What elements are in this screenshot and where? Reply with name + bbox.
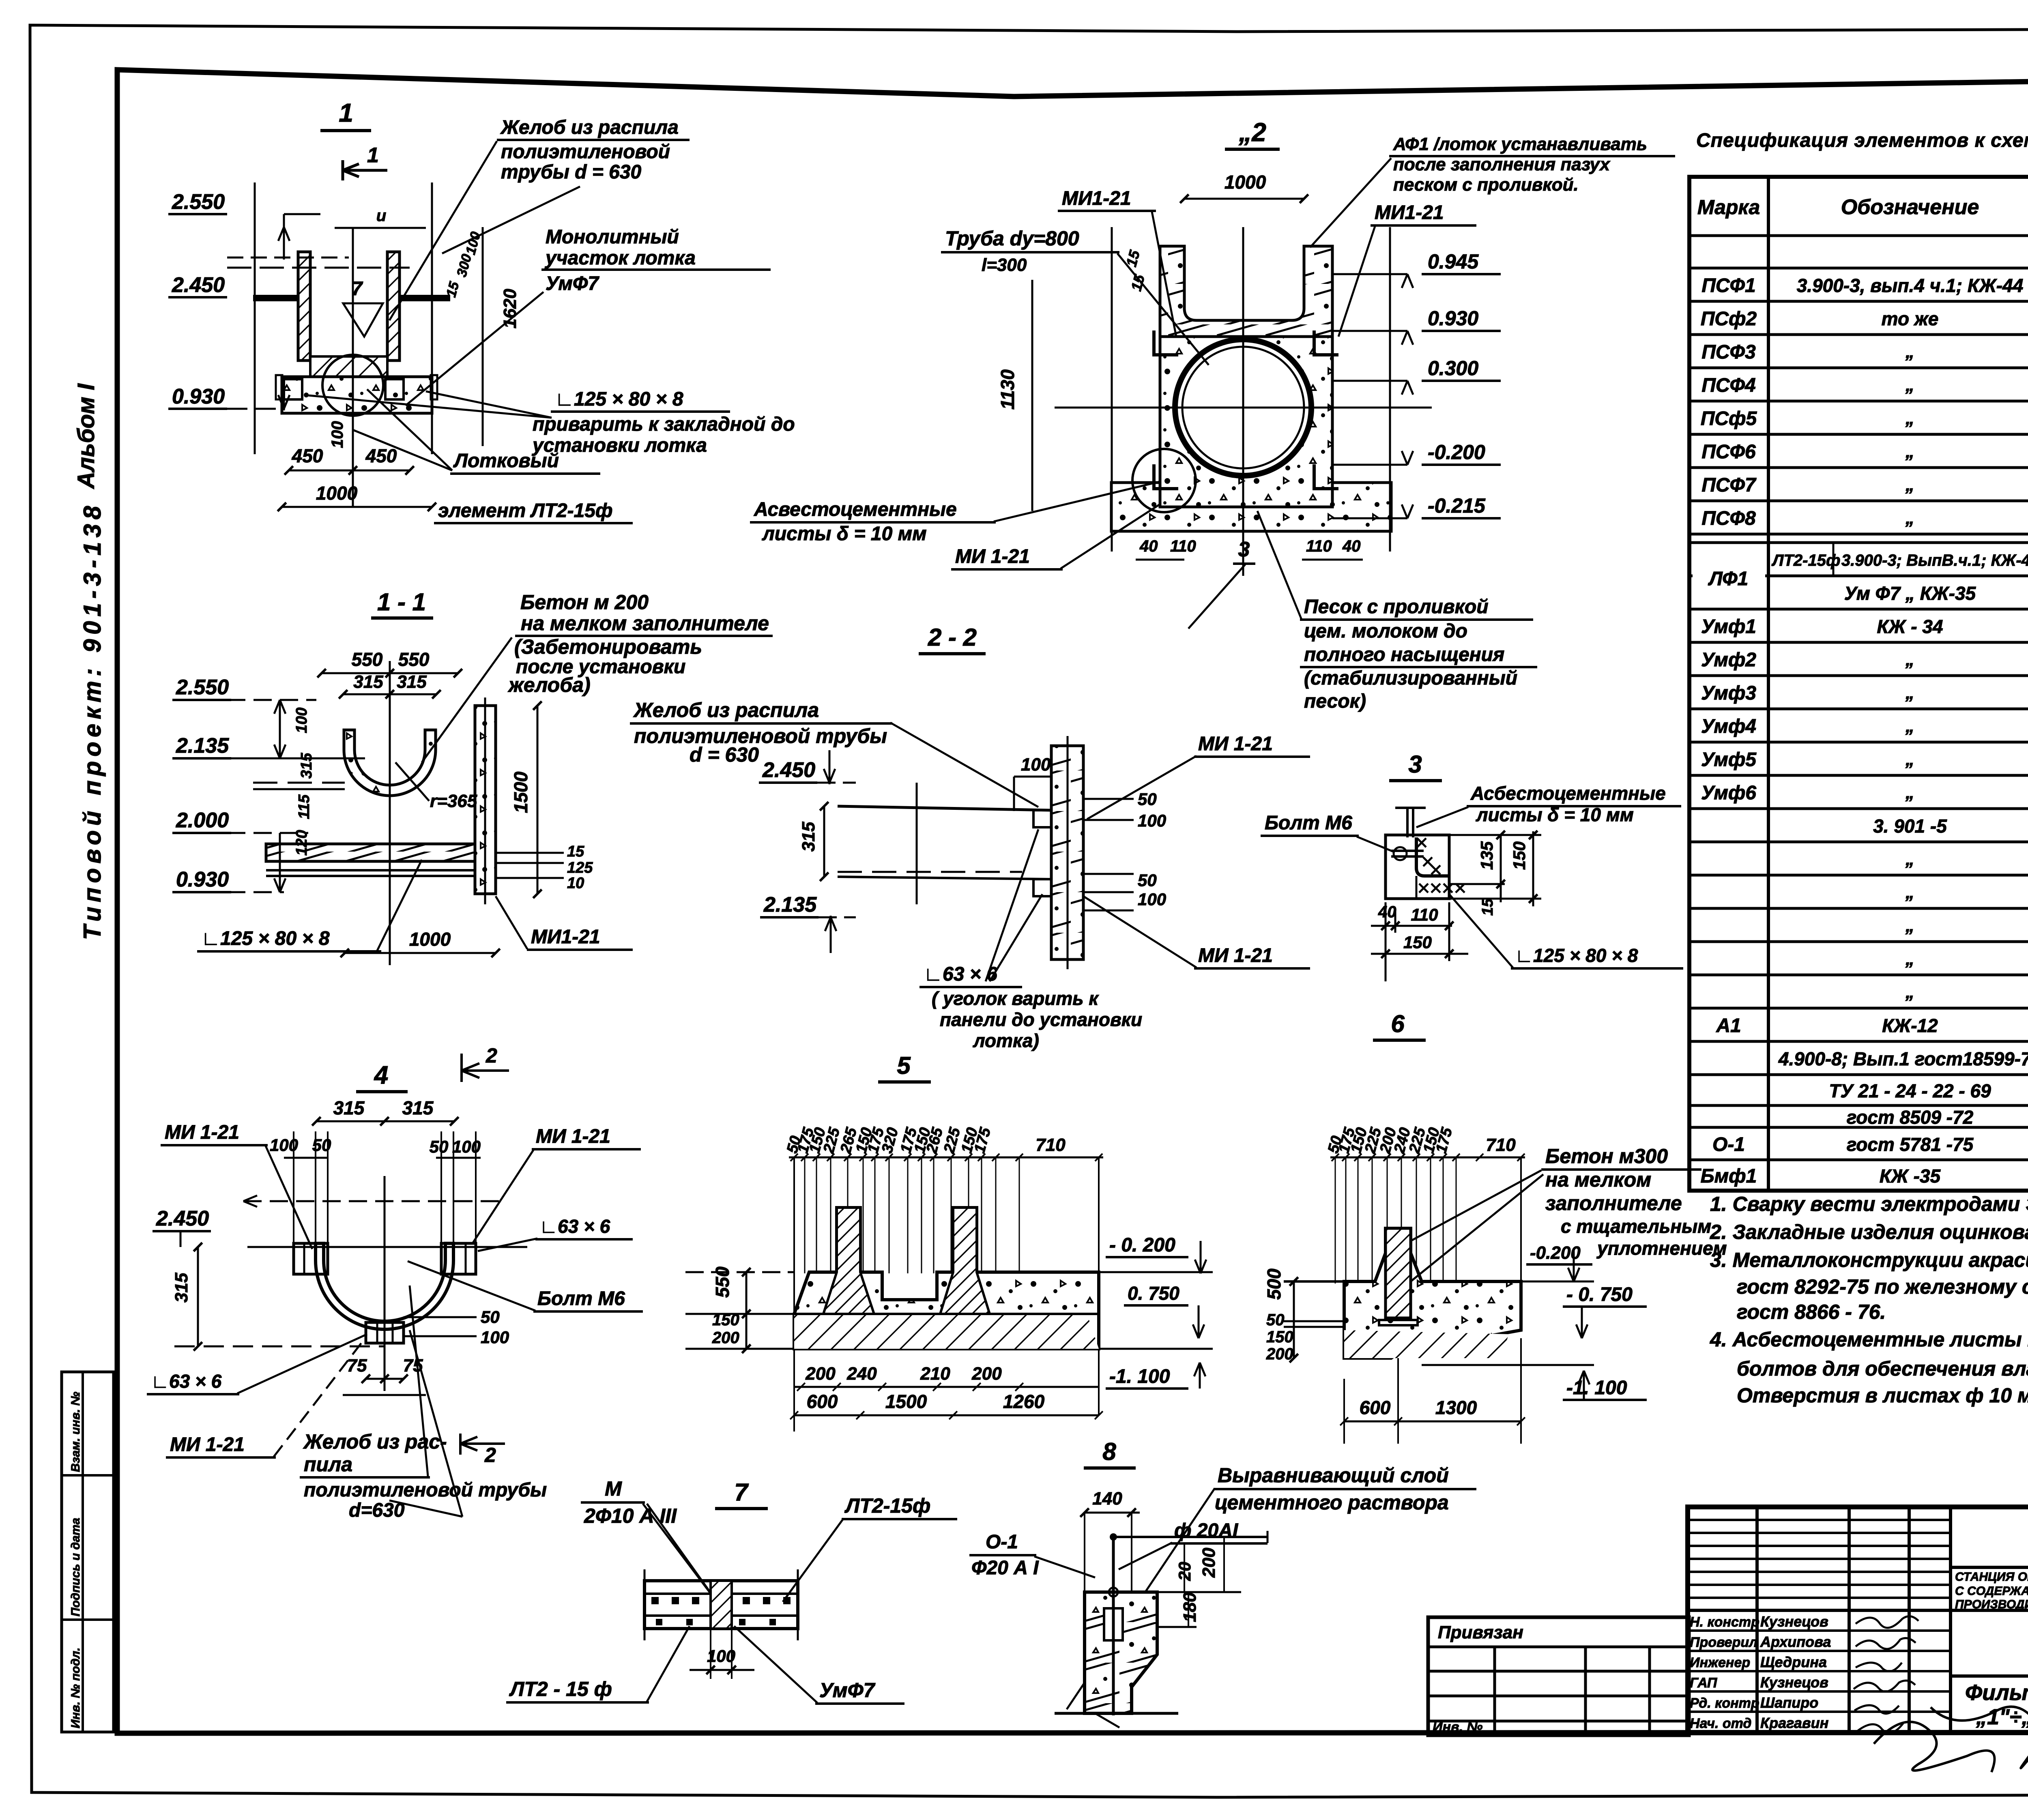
svg-text:с тщательным: с тщательным (1561, 1216, 1711, 1237)
view 4 K2 mark bottom (460, 1434, 505, 1455)
left margin small stamp table (62, 1372, 114, 1732)
view 7 bottom dim 100 (710, 1629, 711, 1679)
view 5 inner hatched base (794, 1314, 1099, 1349)
svg-text:Лотковый: Лотковый (453, 450, 559, 472)
svg-text:„: „ (1905, 342, 1914, 362)
svg-text:3. 901 -5: 3. 901 -5 (1873, 816, 1947, 837)
svg-text:заполнителе: заполнителе (1545, 1192, 1682, 1215)
view 1 bottom dims (289, 470, 410, 472)
svg-text:Умф4: Умф4 (1701, 716, 1756, 737)
svg-text:ТУ 21 - 24 - 22 - 69: ТУ 21 - 24 - 22 - 69 (1829, 1080, 1991, 1101)
view 6 top dim line (1330, 1157, 1525, 1159)
title block (1688, 1507, 2028, 1732)
svg-text:7: 7 (734, 1479, 749, 1506)
svg-text:Шапиро: Шапиро (1760, 1694, 1818, 1711)
view 1 base slab (282, 377, 432, 413)
svg-text:550: 550 (398, 649, 430, 670)
svg-text:2: 2 (486, 1044, 497, 1067)
svg-text:болтов для обеспечения влаж: болтов для обеспечения влажностных дефор… (1737, 1357, 2028, 1380)
signatures (1856, 1616, 1918, 1628)
svg-text:Привязан: Привязан (1438, 1623, 1523, 1642)
svg-text:3.900-3; ВыпВ.ч.1; КЖ-44: 3.900-3; ВыпВ.ч.1; КЖ-44 (1841, 552, 2028, 569)
svg-text:180: 180 (1180, 1592, 1200, 1622)
view 2 base slab (1111, 483, 1391, 531)
view 1 bottom hatch strip (310, 356, 387, 377)
svg-text:КЖ-12: КЖ-12 (1882, 1015, 1938, 1036)
svg-text:3: 3 (1238, 538, 1250, 561)
svg-text:- 0. 200: - 0. 200 (1109, 1234, 1175, 1256)
view 4 bottom dims 75 75 (366, 1378, 404, 1380)
svg-text:ПСФ7: ПСФ7 (1701, 474, 1757, 496)
view 2 main block (1160, 337, 1332, 507)
svg-text:„: „ (1905, 982, 1914, 1002)
svg-text:Крагавин: Крагавин (1760, 1715, 1829, 1731)
svg-text:листы δ = 10 мм: листы δ = 10 мм (762, 523, 927, 545)
svg-text:315: 315 (298, 753, 315, 779)
view 3 angle inside (1416, 837, 1449, 876)
view 4 top dims (316, 1120, 454, 1122)
svg-text:2. Закладные изделия оцинк: 2. Закладные изделия оцинковать. (1710, 1221, 2028, 1243)
view 7 joint hatch (711, 1581, 732, 1629)
svg-text:МИ 1-21: МИ 1-21 (165, 1122, 239, 1143)
svg-text:150: 150 (1510, 841, 1529, 870)
view 3 bolt (1391, 850, 1424, 852)
svg-text:3.900-3, вып.4 ч.1; КЖ-44: 3.900-3, вып.4 ч.1; КЖ-44 (1797, 275, 2024, 296)
svg-text:приварить к закладной до: приварить к закладной до (533, 414, 795, 435)
svg-text:315: 315 (333, 1097, 365, 1118)
svg-text:лотка): лотка) (973, 1030, 1039, 1051)
svg-text:2.550: 2.550 (172, 190, 225, 214)
svg-text:гост 5781 -75: гост 5781 -75 (1847, 1134, 1974, 1155)
svg-text:песок): песок) (1304, 691, 1366, 712)
view 3 sheet above (1406, 807, 1409, 837)
view 8 rebar horizontal (1113, 1536, 1267, 1538)
svg-text:„: „ (1905, 716, 1914, 736)
svg-text:450: 450 (292, 445, 323, 466)
view 2-2 brackets (1033, 810, 1051, 827)
svg-text:75: 75 (347, 1356, 367, 1376)
svg-text:2 - 2: 2 - 2 (928, 624, 977, 651)
privyazan table (1428, 1617, 1689, 1735)
view 6 stem (1386, 1228, 1411, 1318)
svg-text:„: „ (1905, 442, 1914, 461)
svg-text:125: 125 (567, 859, 593, 876)
svg-text:1300: 1300 (1435, 1397, 1477, 1418)
svg-text:„: „ (1905, 849, 1914, 869)
svg-text:15: 15 (567, 843, 584, 860)
view 6 vertical dim lines (1335, 1157, 1336, 1283)
svg-text:Инв. № подл.: Инв. № подл. (69, 1648, 82, 1728)
svg-text:Проверил: Проверил (1690, 1635, 1757, 1650)
svg-text:гост 8509 -72: гост 8509 -72 (1847, 1107, 1974, 1128)
svg-text:Инв. №: Инв. № (1433, 1719, 1482, 1735)
svg-text:110: 110 (1170, 537, 1196, 555)
svg-text:Монолитный: Монолитный (546, 226, 679, 248)
view 2 pipe circle (1175, 339, 1311, 476)
svg-text:40: 40 (1378, 903, 1396, 921)
svg-text:0.930: 0.930 (176, 868, 229, 891)
svg-text:то же: то же (1882, 308, 1939, 329)
svg-text:Асбестоцементные: Асбестоцементные (1470, 783, 1666, 804)
view 4 center lines (384, 1176, 386, 1391)
svg-text:8: 8 (1102, 1438, 1116, 1465)
svg-text:Умф5: Умф5 (1701, 749, 1757, 770)
svg-text:5: 5 (897, 1052, 911, 1079)
svg-text:110: 110 (1306, 537, 1332, 555)
svg-text:1000: 1000 (316, 483, 358, 504)
svg-text:Ф20 А I: Ф20 А I (971, 1557, 1039, 1579)
svg-text:панели до установки: панели до установки (940, 1009, 1142, 1030)
svg-text:„: „ (1905, 408, 1914, 428)
svg-text:„: „ (1905, 650, 1914, 670)
svg-text:ф 20АI: ф 20АI (1174, 1520, 1239, 1541)
svg-text:( уголок варить к: ( уголок варить к (932, 988, 1099, 1009)
svg-text:3: 3 (1408, 751, 1422, 778)
svg-text:4. Асбестоцементные листы: 4. Асбестоцементные листы крепить без пе… (1710, 1328, 2028, 1351)
svg-text:Щедрина: Щедрина (1760, 1654, 1827, 1670)
svg-text:„: „ (1905, 683, 1914, 703)
svg-text:450: 450 (365, 445, 397, 466)
svg-text:d = 630: d = 630 (690, 743, 759, 766)
svg-text:Рд. контр: Рд. контр (1690, 1696, 1759, 1711)
svg-text:Болт М6: Болт М6 (537, 1288, 625, 1309)
svg-text:100: 100 (1138, 811, 1166, 830)
svg-text:315: 315 (353, 672, 383, 692)
svg-text:4.900-8; Вып.1 гост18599-73: 4.900-8; Вып.1 гост18599-73 (1778, 1048, 2028, 1069)
svg-text:„: „ (1905, 375, 1914, 395)
svg-text:ЛТ2 - 15 ф: ЛТ2 - 15 ф (509, 1678, 612, 1700)
svg-text:315: 315 (172, 1273, 191, 1303)
svg-text:УмФ7: УмФ7 (546, 273, 599, 294)
view 6 base hatch band (1344, 1330, 1509, 1358)
svg-text:100: 100 (1021, 755, 1051, 775)
svg-text:-0.200: -0.200 (1428, 441, 1485, 464)
svg-text:315: 315 (402, 1097, 434, 1118)
svg-text:100: 100 (1138, 890, 1166, 909)
svg-text:315: 315 (397, 672, 427, 692)
svg-text:ЛФ1: ЛФ1 (1708, 568, 1749, 590)
svg-text:200: 200 (971, 1364, 1002, 1384)
svg-text:50: 50 (430, 1137, 449, 1156)
svg-text:550: 550 (712, 1266, 733, 1298)
svg-text:1500: 1500 (510, 771, 531, 813)
view 2-2 channel lines (838, 806, 1051, 810)
view 8 inner pocket (1104, 1608, 1123, 1640)
svg-text:АФ1 /лоток устанавливать: АФ1 /лоток устанавливать (1393, 134, 1647, 154)
svg-text:∟63 × 6: ∟63 × 6 (924, 964, 997, 985)
view 1-1 right wall (475, 706, 496, 894)
view 1 left wall (298, 252, 310, 361)
svg-text:Н. констр: Н. констр (1690, 1614, 1759, 1630)
svg-text:Песок с проливкой: Песок с проливкой (1304, 596, 1489, 618)
view 5 body (794, 1208, 1099, 1349)
view 7 end ticks (644, 1569, 646, 1640)
svg-text:1. Сварку вести электродами: 1. Сварку вести электродами Э42 (ГОСТ 94… (1710, 1193, 2028, 1215)
svg-text:l=300: l=300 (982, 255, 1027, 275)
svg-text:ЛТ2-15ф: ЛТ2-15ф (844, 1494, 930, 1517)
svg-text:50: 50 (1266, 1311, 1285, 1329)
svg-text:Умф2: Умф2 (1701, 649, 1756, 671)
svg-text:2Ф10 А III: 2Ф10 А III (584, 1505, 677, 1527)
svg-text:140: 140 (1092, 1489, 1122, 1509)
view 3 square (1386, 835, 1449, 899)
svg-text:гост 8292-75 по железному: гост 8292-75 по железному сурику на олиф… (1737, 1275, 2028, 1298)
view 1 anchor angles (284, 379, 302, 399)
svg-text:∟125 × 80 × 8: ∟125 × 80 × 8 (1515, 945, 1638, 966)
svg-text:(Забетонировать: (Забетонировать (514, 635, 702, 658)
svg-text:Бетон м300: Бетон м300 (1545, 1145, 1668, 1168)
svg-text:10: 10 (567, 875, 584, 892)
spec table grid (1689, 177, 2028, 1191)
svg-text:МИ 1-21: МИ 1-21 (955, 546, 1030, 567)
view 8 ground line (1055, 1712, 1178, 1715)
svg-text:200: 200 (712, 1329, 739, 1347)
svg-text:полиэтиленовой трубы: полиэтиленовой трубы (304, 1479, 547, 1501)
view 6 body (1344, 1228, 1521, 1358)
svg-text:М: М (605, 1477, 622, 1500)
svg-text:0.300: 0.300 (1428, 357, 1478, 380)
svg-text:240: 240 (846, 1364, 877, 1384)
svg-text:листы δ = 10 мм: листы δ = 10 мм (1476, 804, 1634, 825)
view 7 rebar dots (651, 1597, 659, 1604)
view 1 section mark K1 (343, 160, 387, 180)
svg-text:Марка: Марка (1697, 196, 1760, 219)
svg-text:участок лотка: участок лотка (545, 247, 696, 269)
svg-text:210: 210 (920, 1364, 950, 1384)
view 4 bottom bracket (366, 1322, 404, 1343)
svg-text:315: 315 (799, 822, 819, 852)
view 1 dim verticals (254, 182, 256, 454)
svg-text:Болт М6: Болт М6 (1265, 812, 1352, 834)
svg-text:6: 6 (1391, 1010, 1405, 1037)
view 3 weld xxx (1417, 838, 1426, 847)
svg-text:40: 40 (1342, 537, 1361, 555)
svg-text:МИ 1-21: МИ 1-21 (1198, 945, 1273, 966)
view 4 K2 mark top (462, 1054, 509, 1082)
svg-text:Умф6: Умф6 (1701, 782, 1756, 804)
svg-text:элемент ЛТ2-15ф: элемент ЛТ2-15ф (438, 500, 612, 522)
svg-text:Типовой проект: 901-3-138: Типовой проект: 901-3-138 (79, 502, 106, 940)
svg-text:МИ 1-21: МИ 1-21 (1198, 733, 1273, 755)
svg-text:4: 4 (374, 1061, 388, 1089)
view 2 center lines (1242, 227, 1244, 576)
svg-text:ПСФ6: ПСФ6 (1701, 441, 1756, 463)
svg-text:550: 550 (352, 649, 383, 670)
svg-text:200: 200 (1199, 1547, 1219, 1578)
svg-text:110: 110 (1411, 905, 1438, 924)
svg-text:100: 100 (707, 1646, 735, 1665)
svg-text:1500: 1500 (885, 1391, 927, 1412)
svg-text:120: 120 (293, 830, 310, 856)
svg-text:ПСФ8: ПСФ8 (1701, 508, 1756, 529)
svg-text:200: 200 (805, 1364, 836, 1384)
svg-text:500: 500 (1263, 1268, 1285, 1300)
svg-text:150: 150 (1403, 933, 1432, 952)
svg-text:∟63 × 6: ∟63 × 6 (539, 1216, 610, 1237)
svg-text:∟125 × 80 × 8: ∟125 × 80 × 8 (555, 388, 683, 410)
svg-text:ПСф5: ПСф5 (1701, 408, 1757, 429)
svg-text:2.135: 2.135 (176, 734, 229, 758)
view 5 bottom dims (794, 1386, 1099, 1388)
svg-text:Желоб из распила: Желоб из распила (500, 117, 679, 138)
svg-text:200: 200 (1266, 1345, 1293, 1363)
svg-text:Выравнивающий слой: Выравнивающий слой (1218, 1464, 1449, 1487)
svg-text:600: 600 (807, 1391, 838, 1412)
svg-text:Взам. инв. №: Взам. инв. № (69, 1392, 82, 1472)
svg-text:УмФ7: УмФ7 (819, 1679, 876, 1702)
svg-text:1: 1 (339, 98, 353, 127)
svg-text:1000: 1000 (409, 929, 451, 950)
svg-text:Бетон м 200: Бетон м 200 (520, 591, 649, 614)
svg-text:А1: А1 (1716, 1015, 1741, 1037)
view 4 left bracket (294, 1243, 328, 1274)
svg-text:ЛТ2-15ф: ЛТ2-15ф (1771, 552, 1840, 569)
svg-text:МИ 1-21: МИ 1-21 (536, 1126, 610, 1147)
svg-text:„: „ (1905, 749, 1914, 769)
svg-text:0.945: 0.945 (1428, 250, 1479, 273)
svg-text:МИ1-21: МИ1-21 (1375, 202, 1444, 223)
svg-text:Фильтры. Узлы: Фильтры. Узлы (1965, 1680, 2028, 1705)
view 2 top dim 1000 (1184, 198, 1304, 200)
svg-text:МИ 1-21: МИ 1-21 (170, 1434, 245, 1455)
view 4 gutter half pipe (316, 1243, 453, 1329)
svg-text:КЖ - 34: КЖ - 34 (1877, 616, 1943, 637)
svg-text:1 - 1: 1 - 1 (377, 588, 426, 616)
svg-text:полного насыщения: полного насыщения (1304, 644, 1504, 665)
svg-text:песком с проливкой.: песком с проливкой. (1393, 175, 1579, 195)
view 2 bottom dims (1136, 559, 1184, 561)
svg-text:Нач. отд: Нач. отд (1690, 1716, 1751, 1731)
view 1-1 slab (266, 844, 475, 861)
svg-text:„: „ (1905, 783, 1914, 803)
svg-text:ГАП: ГАП (1690, 1675, 1718, 1691)
svg-text:гост 8866 - 76.: гост 8866 - 76. (1737, 1301, 1886, 1323)
svg-text:МИ1-21: МИ1-21 (1062, 188, 1131, 209)
svg-text:115: 115 (296, 794, 313, 819)
svg-text:2.135: 2.135 (763, 893, 817, 916)
svg-text:„: „ (1905, 475, 1914, 495)
view 6 left ledge lines (1284, 1280, 1344, 1283)
svg-text:100: 100 (481, 1328, 509, 1347)
svg-text:цем. молоком до: цем. молоком до (1304, 620, 1467, 642)
svg-text:2.450: 2.450 (172, 273, 225, 297)
svg-text:Умф3: Умф3 (1701, 682, 1756, 704)
view 6 bottom dims (1344, 1421, 1521, 1423)
svg-text:0. 750: 0. 750 (1128, 1283, 1179, 1304)
view 7 beam (644, 1581, 798, 1629)
svg-text:150: 150 (1266, 1328, 1293, 1346)
svg-text:-1. 100: -1. 100 (1109, 1366, 1170, 1387)
svg-text:2.450: 2.450 (762, 758, 815, 782)
svg-text:2: 2 (484, 1444, 496, 1466)
view 1-1 top dims (322, 672, 458, 674)
svg-text:710: 710 (1035, 1135, 1066, 1155)
svg-text:Умф1: Умф1 (1701, 616, 1756, 637)
svg-text:СТАНЦИЯ ОБЕЗЖЕЛЕЗИВАНИЯ ВОД: СТАНЦИЯ ОБЕЗЖЕЛЕЗИВАНИЯ ВОДЫ ПОДЗЕМНЫХ И… (1955, 1570, 2028, 1584)
view 2 node circle 3 (1132, 449, 1196, 512)
svg-text:Кузнецов: Кузнецов (1760, 1674, 1828, 1691)
svg-text:КЖ -35: КЖ -35 (1880, 1165, 1941, 1187)
svg-text:- 0. 750: - 0. 750 (1566, 1284, 1633, 1305)
svg-text:1: 1 (367, 144, 379, 167)
svg-text:уплотнением: уплотнением (1596, 1238, 1727, 1259)
view 8 rebar vertical (1112, 1537, 1115, 1715)
svg-text:„: „ (1905, 882, 1914, 902)
svg-text:„2: „2 (1238, 118, 1266, 147)
svg-text:„: „ (1905, 508, 1914, 528)
svg-text:желоба): желоба) (507, 674, 591, 696)
svg-text:Подпись и дата: Подпись и дата (69, 1518, 82, 1616)
svg-text:пила: пила (304, 1453, 352, 1476)
svg-text:15: 15 (1479, 898, 1496, 916)
svg-text:Труба dу=800: Труба dу=800 (945, 227, 1079, 250)
svg-text:0.930: 0.930 (172, 385, 225, 408)
view 1 floor stubs (253, 295, 298, 301)
svg-text:цементного раствора: цементного раствора (1215, 1491, 1449, 1514)
view 4 right bracket (441, 1243, 476, 1274)
view 1 top dim (335, 227, 426, 229)
view 2 dim verticals (1111, 227, 1113, 552)
svg-text:МИ1-21: МИ1-21 (531, 926, 600, 948)
svg-text:Бмф1: Бмф1 (1701, 1165, 1757, 1187)
svg-text:∟63 × 6: ∟63 × 6 (151, 1371, 222, 1392)
svg-text:ПСФ3: ПСФ3 (1701, 341, 1756, 363)
svg-text:после заполнения пазух: после заполнения пазух (1393, 155, 1611, 174)
svg-text:100: 100 (329, 421, 346, 448)
svg-text:50: 50 (1138, 790, 1157, 809)
svg-text:Обозначение: Обозначение (1841, 195, 1979, 219)
svg-text:710: 710 (1486, 1135, 1516, 1155)
svg-text:50: 50 (1138, 871, 1157, 890)
svg-text:(стабилизированный: (стабилизированный (1304, 667, 1517, 689)
svg-text:2.000: 2.000 (176, 809, 229, 832)
svg-text:100: 100 (293, 708, 310, 733)
svg-text:О-1: О-1 (986, 1531, 1018, 1553)
view 5 vertical dim lines (794, 1157, 795, 1273)
svg-text:0.930: 0.930 (1428, 307, 1478, 330)
view 1 right wall (387, 252, 400, 361)
svg-text:Архипова: Архипова (1760, 1633, 1831, 1650)
svg-text:3. Металлоконструкции акраси: 3. Металлоконструкции акрасить масляной … (1710, 1249, 2028, 1271)
svg-text:ПСф2: ПСф2 (1701, 308, 1757, 330)
svg-text:ПСФ1: ПСФ1 (1701, 275, 1755, 296)
svg-text:Альбом I: Альбом I (73, 383, 99, 489)
svg-text:и: и (376, 207, 386, 225)
svg-text:40: 40 (1139, 537, 1158, 555)
view 5 top dim line (789, 1157, 1103, 1159)
view 2 channel top part (1160, 246, 1332, 337)
view 1 node circle (322, 355, 383, 416)
svg-text:-1. 100: -1. 100 (1566, 1377, 1627, 1399)
svg-text:Кузнецов: Кузнецов (1760, 1613, 1828, 1630)
svg-text:135: 135 (1477, 841, 1496, 870)
svg-text:-0.215: -0.215 (1428, 494, 1486, 517)
svg-text:на мелком заполнителе: на мелком заполнителе (521, 612, 769, 635)
svg-text:Асвестоцементные: Асвестоцементные (754, 499, 957, 520)
svg-text:полиэтиленовой: полиэтиленовой (501, 141, 670, 163)
svg-text:∟125 × 80 × 8: ∟125 × 80 × 8 (201, 928, 330, 949)
svg-text:Инженер: Инженер (1690, 1655, 1750, 1670)
view 2-2 wall (1051, 746, 1083, 959)
view 1-1 bottom dim 1000 (345, 952, 496, 954)
svg-text:С СОДЕРЖАНИЕМ ЖЕЛЕЗА ДО 10: С СОДЕРЖАНИЕМ ЖЕЛЕЗА ДО 10 МГ/Л (1955, 1584, 2028, 1598)
svg-text:1620: 1620 (500, 289, 520, 328)
svg-text:„: „ (1905, 916, 1914, 936)
view 1 node triangle 7 (343, 303, 383, 337)
svg-text:r=365: r=365 (430, 791, 477, 811)
view 2 corner angles (1154, 331, 1178, 355)
view 1-1 floor line left (253, 782, 345, 784)
